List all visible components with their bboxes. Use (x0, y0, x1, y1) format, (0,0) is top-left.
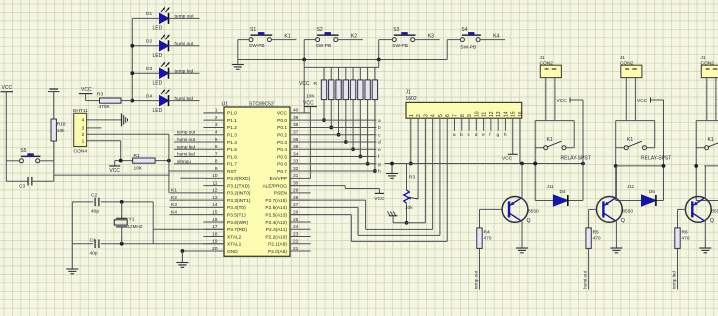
svg-text:h: h (504, 132, 507, 138)
svg-text:VCC: VCC (2, 85, 13, 91)
svg-text:33: 33 (293, 159, 299, 165)
svg-text:XTAL1: XTAL1 (227, 242, 242, 248)
svg-text:8: 8 (460, 114, 466, 117)
svg-text:8550: 8550 (528, 209, 539, 215)
svg-text:16: 16 (212, 217, 218, 223)
svg-text:humi out: humi out (177, 137, 196, 142)
svg-text:10k: 10k (405, 205, 413, 211)
svg-text:R3: R3 (409, 174, 415, 180)
svg-text:R1: R1 (134, 153, 140, 159)
svg-text:R5: R5 (593, 230, 599, 236)
svg-text:S3: S3 (393, 27, 399, 33)
svg-text:J1: J1 (620, 55, 625, 61)
svg-text:S5: S5 (20, 148, 26, 154)
svg-text:P1.5: P1.5 (227, 147, 237, 153)
svg-text:R: R (314, 81, 318, 87)
svg-text:humi out: humi out (175, 41, 194, 47)
svg-text:9: 9 (215, 166, 218, 172)
svg-text:b: b (378, 125, 381, 131)
svg-text:P0.5: P0.5 (277, 154, 287, 160)
svg-text:4: 4 (431, 114, 437, 117)
svg-text:P2.7(A15): P2.7(A15) (265, 198, 287, 204)
svg-text:40: 40 (293, 108, 299, 114)
svg-text:J11: J11 (627, 184, 635, 189)
svg-text:40p: 40p (91, 208, 99, 214)
svg-text:J1: J1 (540, 55, 545, 61)
svg-text:1: 1 (82, 139, 85, 145)
svg-text:R4: R4 (484, 230, 490, 236)
svg-text:12: 12 (489, 111, 495, 117)
svg-text:e: e (482, 133, 485, 138)
svg-text:P1.1: P1.1 (227, 118, 237, 124)
svg-text:K1: K1 (284, 33, 290, 39)
svg-text:Y1: Y1 (129, 217, 135, 223)
svg-text:12: 12 (212, 188, 218, 194)
svg-text:P3.4(T0): P3.4(T0) (227, 205, 246, 211)
svg-text:CON4: CON4 (74, 148, 88, 154)
svg-text:D2: D2 (146, 39, 152, 45)
svg-text:3: 3 (215, 122, 218, 128)
svg-text:P0.1: P0.1 (277, 125, 287, 131)
svg-text:VCC: VCC (374, 196, 385, 202)
svg-text:Q: Q (527, 218, 531, 224)
svg-text:P1.0: P1.0 (227, 111, 237, 117)
svg-text:29: 29 (293, 188, 299, 194)
svg-text:g: g (378, 162, 381, 167)
svg-text:10K: 10K (306, 94, 315, 100)
svg-text:12MHZ: 12MHZ (128, 224, 143, 229)
svg-text:VCC: VCC (277, 111, 288, 117)
svg-text:R3: R3 (97, 91, 103, 97)
svg-text:10: 10 (212, 173, 218, 179)
svg-text:ALE/PROG: ALE/PROG (262, 183, 287, 189)
svg-text:S4: S4 (461, 27, 467, 33)
svg-text:b: b (460, 132, 463, 138)
svg-text:temp led: temp led (671, 271, 676, 289)
svg-text:470: 470 (484, 236, 492, 242)
svg-text:470: 470 (593, 236, 601, 242)
svg-text:temp out: temp out (473, 270, 478, 289)
svg-text:9: 9 (467, 114, 473, 117)
svg-text:22: 22 (293, 239, 299, 245)
svg-text:K1: K1 (171, 188, 177, 194)
svg-text:temp led: temp led (175, 68, 194, 74)
svg-text:LED: LED (153, 108, 163, 114)
svg-text:J11: J11 (547, 184, 555, 189)
svg-text:P0.3: P0.3 (277, 140, 287, 146)
svg-text:S2: S2 (317, 27, 323, 33)
svg-text:39: 39 (293, 115, 299, 121)
svg-text:35: 35 (293, 144, 299, 150)
svg-text:RELAY-SPST: RELAY-SPST (641, 155, 671, 161)
svg-text:h: h (378, 169, 381, 175)
svg-text:14: 14 (503, 111, 509, 117)
svg-text:25: 25 (293, 217, 299, 223)
svg-text:U1: U1 (222, 101, 229, 107)
svg-text:LED: LED (153, 26, 163, 32)
svg-text:Q: Q (621, 218, 625, 224)
svg-text:36: 36 (293, 137, 299, 143)
svg-text:P3.1(TXD): P3.1(TXD) (227, 183, 250, 189)
svg-text:3: 3 (82, 126, 85, 132)
svg-text:temp out: temp out (175, 14, 195, 20)
svg-text:RST: RST (227, 169, 237, 175)
svg-text:RELAY-SPST: RELAY-SPST (561, 155, 591, 161)
svg-text:37: 37 (293, 130, 299, 136)
svg-text:P0.7: P0.7 (277, 169, 287, 175)
svg-text:32: 32 (293, 166, 299, 172)
svg-text:d: d (378, 140, 381, 146)
svg-text:P2.1(A9): P2.1(A9) (268, 242, 287, 248)
svg-text:P2.5(A13): P2.5(A13) (265, 212, 287, 218)
svg-text:Q: Q (710, 218, 714, 224)
svg-text:P0.6: P0.6 (277, 162, 287, 168)
svg-text:21: 21 (293, 246, 299, 252)
svg-text:VCC: VCC (109, 168, 120, 174)
svg-text:2: 2 (215, 115, 218, 121)
svg-text:8550: 8550 (711, 209, 718, 215)
svg-text:13: 13 (496, 111, 502, 117)
svg-text:8: 8 (215, 159, 218, 165)
svg-text:3: 3 (423, 114, 429, 117)
svg-text:P2.2(A10): P2.2(A10) (265, 234, 287, 240)
svg-text:temp out: temp out (177, 130, 196, 135)
svg-text:K2: K2 (171, 195, 177, 201)
svg-text:24: 24 (293, 224, 299, 230)
svg-text:K1: K1 (627, 137, 633, 143)
svg-text:1: 1 (215, 108, 218, 114)
svg-text:sltmpu: sltmpu (177, 159, 191, 164)
svg-text:P1.2: P1.2 (227, 125, 237, 131)
svg-text:humi led: humi led (177, 152, 195, 157)
svg-text:10: 10 (474, 111, 480, 117)
svg-text:15: 15 (511, 111, 517, 117)
svg-text:SW-PB: SW-PB (249, 43, 265, 49)
svg-text:P0.2: P0.2 (277, 133, 287, 139)
svg-text:31: 31 (293, 173, 299, 179)
svg-text:6: 6 (445, 114, 451, 117)
svg-text:D1: D1 (146, 11, 152, 17)
svg-text:16: 16 (518, 111, 524, 117)
svg-text:470K: 470K (99, 104, 111, 110)
svg-text:10K: 10K (134, 165, 143, 171)
svg-text:e: e (378, 148, 381, 153)
svg-text:2: 2 (416, 114, 422, 117)
svg-text:P1.4: P1.4 (227, 140, 237, 146)
svg-text:P2.4(A12): P2.4(A12) (265, 220, 287, 226)
svg-text:a: a (378, 119, 381, 124)
svg-text:P3.5(T1): P3.5(T1) (227, 212, 246, 218)
svg-text:VCC: VCC (502, 156, 513, 162)
svg-text:1602: 1602 (406, 96, 417, 102)
svg-text:5: 5 (438, 114, 444, 117)
svg-text:d: d (475, 132, 478, 138)
svg-text:1: 1 (409, 114, 415, 117)
svg-text:P2.6(A14): P2.6(A14) (265, 205, 287, 211)
svg-text:13: 13 (212, 195, 218, 201)
svg-text:K3: K3 (428, 33, 434, 39)
svg-text:SW-PB: SW-PB (460, 45, 476, 51)
svg-text:P1.3: P1.3 (227, 133, 237, 139)
svg-text:P2.3(A11): P2.3(A11) (266, 227, 288, 233)
svg-text:temp led: temp led (177, 144, 195, 149)
svg-text:SW-PB: SW-PB (392, 43, 408, 49)
svg-text:7: 7 (215, 151, 218, 157)
svg-text:8550: 8550 (622, 209, 633, 215)
svg-text:K4: K4 (171, 209, 177, 215)
svg-text:P1.7: P1.7 (227, 162, 237, 168)
svg-text:11: 11 (482, 112, 488, 117)
svg-text:humi out: humi out (582, 270, 587, 289)
svg-text:40p: 40p (90, 251, 98, 257)
svg-text:J1: J1 (406, 90, 412, 96)
svg-text:23: 23 (293, 231, 299, 237)
svg-text:D6: D6 (649, 189, 655, 194)
svg-text:P1.6: P1.6 (227, 154, 237, 160)
svg-text:4: 4 (215, 130, 218, 136)
svg-text:K1: K1 (708, 137, 714, 143)
svg-text:P3.3(INT1): P3.3(INT1) (227, 198, 251, 204)
svg-text:LED: LED (153, 81, 163, 87)
svg-text:VCC: VCC (557, 98, 568, 104)
svg-text:34: 34 (293, 151, 299, 157)
svg-text:4: 4 (82, 118, 85, 124)
svg-text:5: 5 (215, 137, 218, 143)
svg-text:14: 14 (212, 202, 218, 208)
svg-text:2: 2 (82, 132, 85, 138)
svg-text:STC89C52: STC89C52 (249, 101, 274, 107)
svg-text:K1: K1 (547, 137, 553, 143)
svg-text:SW-PB: SW-PB (316, 43, 332, 49)
svg-text:P2.0(A8): P2.0(A8) (268, 249, 287, 255)
svg-text:K3: K3 (171, 202, 177, 208)
svg-text:D3: D3 (146, 66, 152, 72)
svg-text:XTAL2: XTAL2 (227, 234, 242, 240)
svg-text:7: 7 (452, 114, 458, 117)
svg-text:a: a (453, 133, 456, 138)
svg-text:P0.4: P0.4 (277, 147, 287, 153)
svg-text:P3.0(RXD): P3.0(RXD) (227, 176, 251, 182)
svg-text:VCC: VCC (81, 87, 92, 93)
svg-text:C2: C2 (91, 193, 97, 199)
svg-text:P3.6(WR): P3.6(WR) (227, 220, 248, 226)
svg-text:15: 15 (212, 209, 218, 215)
svg-text:6: 6 (215, 144, 218, 150)
svg-text:P3.2(INT0): P3.2(INT0) (227, 191, 251, 197)
svg-text:11: 11 (213, 180, 218, 186)
svg-text:K2: K2 (351, 33, 357, 39)
svg-text:GND: GND (227, 249, 238, 255)
svg-text:470: 470 (682, 236, 690, 242)
svg-text:D4: D4 (146, 93, 152, 99)
svg-text:EA/VPP: EA/VPP (270, 176, 287, 182)
svg-text:C3: C3 (19, 183, 25, 189)
svg-text:S1: S1 (250, 27, 256, 33)
svg-text:g: g (497, 133, 500, 138)
svg-text:10k: 10k (57, 128, 65, 134)
svg-text:R6: R6 (682, 230, 688, 236)
svg-text:DHT11: DHT11 (73, 108, 88, 114)
svg-text:P3.7(RD): P3.7(RD) (227, 227, 247, 233)
svg-text:PSEN: PSEN (274, 191, 288, 197)
svg-text:18: 18 (212, 231, 218, 237)
svg-text:K4: K4 (493, 33, 499, 39)
svg-text:J1: J1 (701, 55, 706, 61)
svg-text:VCC: VCC (637, 98, 648, 104)
svg-text:R18: R18 (57, 122, 66, 128)
svg-text:C1: C1 (90, 238, 96, 244)
svg-text:VCC: VCC (303, 101, 314, 107)
svg-text:D4: D4 (560, 189, 566, 194)
svg-text:LED: LED (153, 53, 163, 59)
svg-text:P0.0: P0.0 (277, 118, 287, 124)
svg-text:38: 38 (293, 122, 299, 128)
svg-text:humi led: humi led (175, 96, 194, 102)
